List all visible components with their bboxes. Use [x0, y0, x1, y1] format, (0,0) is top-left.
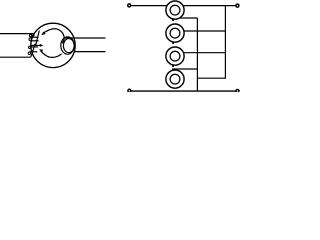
- wire bottom-left lead of regulator: [0, 56, 30, 58]
- winding W3 inner: [170, 51, 180, 61]
- shunt winding rung 4: [29, 51, 37, 53]
- tap 1: [180, 17, 198, 19]
- rotor ring B: [63, 39, 74, 53]
- link nub W3-W4: [172, 65, 174, 67]
- winding W3 outer: [166, 47, 184, 65]
- link nub W1-W2: [172, 19, 174, 21]
- adjusting arrow head: [40, 44, 44, 47]
- winding curl 4: [28, 52, 30, 54]
- terminal bottom-left: [128, 89, 131, 92]
- tap 2: [184, 30, 226, 32]
- winding W2 inner: [170, 28, 180, 38]
- winding diagonal 2: [31, 43, 36, 57]
- winding curl 3: [29, 46, 31, 48]
- winding curl top entry: [32, 34, 34, 36]
- winding W4 outer: [166, 70, 184, 88]
- wire right lead R2: [74, 51, 105, 53]
- winding diagonal 1: [36, 31, 39, 45]
- terminal top-right: [236, 4, 239, 7]
- shunt winding rung 3: [30, 46, 38, 48]
- series winding lower arc: [41, 51, 62, 58]
- series winding upper arc: [42, 29, 64, 43]
- wire bottom bus: [131, 90, 235, 92]
- tap 4: [172, 68, 197, 70]
- bus B vertical: [196, 18, 198, 91]
- terminal bottom-right: [236, 90, 239, 93]
- arrowhead on lower arc: [39, 49, 43, 52]
- wire top bus right segment: [183, 5, 235, 7]
- winding W2 outer: [166, 24, 184, 42]
- winding W1 inner: [170, 5, 180, 15]
- winding curl 2: [29, 38, 31, 40]
- winding W1 outer: [166, 1, 184, 19]
- wire top-left lead of regulator: [0, 33, 33, 35]
- winding W4 inner: [170, 74, 180, 84]
- link nub W2-W3: [172, 42, 174, 44]
- bus A vertical with corner to bus B: [197, 6, 225, 79]
- terminal top-left: [128, 4, 131, 7]
- rotor ring A: [61, 37, 74, 54]
- arrowhead on upper arc: [41, 32, 45, 36]
- wire right lead R1: [64, 37, 105, 39]
- tap 3: [184, 52, 226, 54]
- adjusting arrow shaft: [31, 44, 41, 46]
- shunt winding rung 1: [31, 36, 39, 38]
- winding curl 1: [29, 34, 31, 36]
- wire top bus left segment: [131, 5, 167, 7]
- stator big circle of induction regulator: [31, 23, 75, 67]
- shunt winding rung 2: [30, 40, 38, 42]
